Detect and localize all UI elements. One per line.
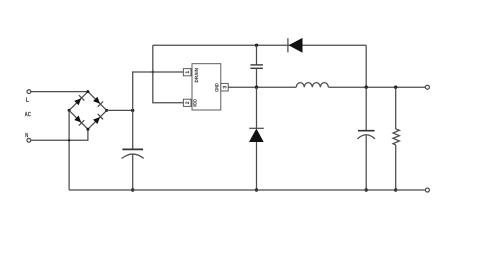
node bridge bottom vertex (86, 128, 89, 131)
wire freewheel diode lower lead (256, 142, 258, 190)
node top rail to bypass cap (255, 44, 258, 47)
wire load resistor lower lead (395, 145, 397, 190)
node crossing VDD line (152, 71, 154, 73)
bridge diode D4 (93, 114, 104, 125)
node output junction resistor (394, 86, 397, 89)
bridge rectifier edge top-right (88, 92, 107, 111)
wire input cap lower lead (132, 154, 134, 190)
node freewheel diode to bottom rail (255, 188, 258, 191)
capacitor C3 output (357, 131, 375, 139)
wire bypass cap upper lead (256, 45, 258, 64)
node output cap to bottom rail (365, 188, 368, 191)
op-amp U1 controller IC body (192, 64, 221, 110)
label L (26, 97, 29, 102)
wire DC plus riser to DRAIN pin (133, 72, 184, 110)
wire top rail right drop (365, 45, 367, 87)
bridge diode D1 (74, 95, 85, 106)
resistor R1 load (393, 129, 399, 145)
node bridge top vertex (86, 90, 89, 93)
wire freewheel diode upper lead (256, 87, 258, 128)
capacitor C1 input filter (122, 149, 144, 158)
bridge rectifier edge top-left (69, 92, 88, 111)
node load resistor to bottom rail (394, 188, 397, 191)
node switch node junction (255, 86, 258, 89)
wire bottom rail (69, 189, 425, 191)
wire N to bridge bottom (31, 129, 88, 140)
terminal N (27, 138, 31, 142)
node input cap to bottom rail (131, 188, 134, 191)
inductor L1 (296, 83, 328, 88)
pin label DRAIN (195, 68, 198, 82)
node output junction cap (365, 86, 368, 89)
wire bridge right vertex to input cap node (107, 109, 133, 111)
wire L to bridge top (31, 91, 88, 93)
label AC (25, 112, 31, 117)
pin number 3 (223, 86, 227, 89)
wire load resistor upper lead (395, 87, 397, 129)
wire output cap lower lead (365, 135, 367, 190)
terminal output minus (425, 188, 429, 192)
bridge rectifier edge bottom-right (88, 110, 107, 129)
pin number 1 (185, 71, 189, 73)
wire pin 3 to switch node (228, 86, 296, 88)
bridge diode D3 (74, 115, 85, 126)
wire DC minus down from left vertex (68, 110, 70, 190)
diode D5 VDD supply (288, 38, 303, 53)
wire inductor to output (328, 86, 425, 88)
pin label GND (215, 83, 218, 91)
node bridge left vertex (68, 109, 71, 112)
terminal output plus (425, 85, 429, 89)
bridge diode D2 (93, 96, 104, 107)
pin 3 box (221, 83, 228, 91)
wire input cap upper lead (132, 110, 134, 149)
node crossing N wire (68, 139, 70, 141)
wire top rail (153, 44, 366, 46)
diode D6 freewheeling (249, 128, 264, 142)
capacitor C2 VDD bypass (250, 65, 263, 68)
label N (25, 133, 28, 137)
pin 2 box (183, 99, 191, 106)
bridge rectifier edge bottom-left (69, 110, 88, 129)
node DC plus junction (131, 109, 134, 112)
terminal L (27, 90, 31, 94)
wire output cap upper lead (365, 87, 367, 130)
wire bypass cap lower lead (256, 69, 258, 88)
pin 1 box (183, 69, 191, 76)
node bridge right vertex (105, 109, 108, 112)
pin label VDD (193, 99, 196, 107)
pin number 2 (185, 102, 189, 105)
wire VDD from top rail to pin 2 (153, 45, 184, 103)
